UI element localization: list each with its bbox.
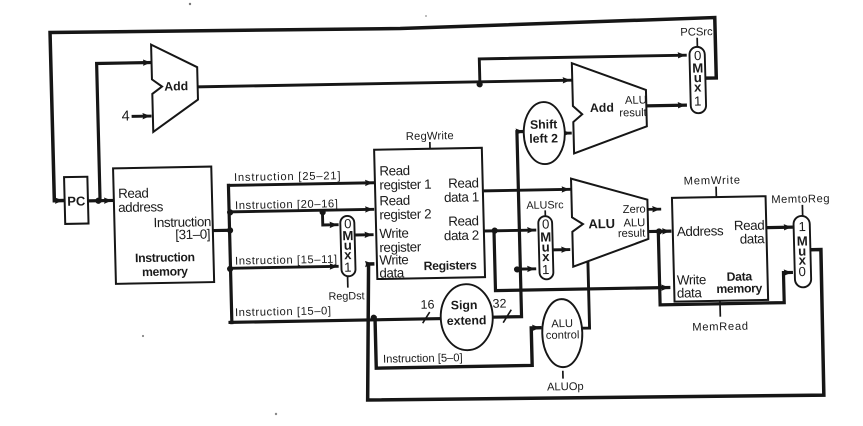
mux PCSrc xyxy=(689,47,706,114)
wire sign extend branch to ALUSrc mux input 1 xyxy=(517,267,535,270)
svg-text:1: 1 xyxy=(542,262,550,277)
svg-text:ALU: ALU xyxy=(625,95,647,107)
svg-text:RegDst: RegDst xyxy=(328,290,364,303)
svg-text:Instruction [25–21]: Instruction [25–21] xyxy=(234,170,342,184)
mux MemtoReg xyxy=(793,216,811,288)
svg-text:left 2: left 2 xyxy=(529,131,558,146)
svg-text:address: address xyxy=(118,199,164,215)
tick ALUSrc to mux xyxy=(544,210,546,216)
svg-text:Instruction: Instruction xyxy=(135,250,195,265)
svg-text:16: 16 xyxy=(420,298,434,312)
svg-text:1: 1 xyxy=(694,94,702,109)
mux ALUSrc xyxy=(538,216,553,279)
svg-text:PCSrc: PCSrc xyxy=(680,26,713,39)
instruction memory xyxy=(113,167,214,284)
svg-text:Read: Read xyxy=(448,213,479,229)
wire ALU Zero output xyxy=(648,208,660,211)
svg-text:Shift: Shift xyxy=(530,117,558,131)
svg-text:Add: Add xyxy=(590,101,614,115)
alu U-ALU main xyxy=(571,177,649,266)
node instr[15-0] branch junction xyxy=(371,315,377,321)
wire ALUSrc mux output to ALU input xyxy=(554,248,569,251)
svg-text:ALUSrc: ALUSrc xyxy=(526,199,564,212)
wire Instruction[20-16] to Read register 2 xyxy=(230,209,373,212)
register PC xyxy=(64,177,88,224)
svg-text:Sign: Sign xyxy=(451,298,478,312)
scan speckles xyxy=(189,3,191,5)
node bus instruction-out junction xyxy=(227,227,233,233)
svg-text:Registers: Registers xyxy=(424,258,478,273)
slash 32-bit bus xyxy=(503,310,512,323)
svg-text:[31–0]: [31–0] xyxy=(175,227,210,243)
svg-text:memory: memory xyxy=(716,281,762,296)
svg-text:Instruction [15–0]: Instruction [15–0] xyxy=(235,305,332,319)
svg-text:MemtoReg: MemtoReg xyxy=(771,193,830,206)
svg-text:result: result xyxy=(618,228,647,241)
svg-text:control: control xyxy=(546,329,580,342)
svg-text:RegWrite: RegWrite xyxy=(406,130,454,143)
node sign extend output junction xyxy=(514,266,520,272)
svg-text:data 1: data 1 xyxy=(444,189,479,205)
wire Read data 2 branch to data memory Write data xyxy=(494,227,669,290)
tick RegWrite to registers xyxy=(429,142,431,150)
wire Add result (PC+4) to branch Add top input xyxy=(198,80,571,87)
svg-text:Zero: Zero xyxy=(623,204,646,216)
wire ALU result to data memory Address xyxy=(648,230,670,234)
svg-text:ALU: ALU xyxy=(588,216,615,231)
svg-text:4: 4 xyxy=(121,109,129,125)
wire RegDst mux output to Write register xyxy=(356,233,373,236)
svg-text:extend: extend xyxy=(447,313,487,328)
tick MemRead to data memory xyxy=(719,300,721,317)
node Read data 2 junction xyxy=(492,227,498,233)
tick MemWrite to data memory xyxy=(715,187,717,198)
wire data memory Read data to MemtoReg mux input 1 xyxy=(768,226,791,230)
adder Add (branch target) xyxy=(572,62,649,154)
wire PC+4 branch to PCSrc mux input 0 xyxy=(479,55,686,84)
wire Read data 2 to ALUSrc mux input 0 xyxy=(485,229,535,233)
node bus instr[15-11] junction xyxy=(227,266,233,272)
wire Instruction[15-0] to sign extend xyxy=(230,319,442,323)
shifter Shift left 2 xyxy=(523,102,566,165)
svg-text:Instruction [5–0]: Instruction [5–0] xyxy=(383,352,463,365)
node PC+4 junction xyxy=(476,81,482,87)
tick ALUOp to ALU control xyxy=(562,371,564,379)
svg-text:x: x xyxy=(694,80,702,95)
slash 16-bit bus xyxy=(422,312,430,323)
svg-text:MemWrite: MemWrite xyxy=(684,175,741,188)
data memory xyxy=(672,196,768,301)
wire Instruction[15-11] to RegDst mux input 1 xyxy=(230,266,337,268)
svg-text:data: data xyxy=(740,231,766,246)
wire constant 4 into Add xyxy=(133,115,150,118)
svg-text:32: 32 xyxy=(492,297,506,311)
wire write-back: MemtoReg mux output to Write data xyxy=(364,250,824,404)
wire Instruction[20-16] branch to RegDst mux input 0 xyxy=(322,212,337,225)
svg-text:Instruction [20–16]: Instruction [20–16] xyxy=(235,198,339,212)
svg-text:memory: memory xyxy=(142,264,188,279)
tick PCSrc to mux xyxy=(696,38,698,47)
wire instruction memory output to instruction bus xyxy=(214,229,230,232)
svg-text:1: 1 xyxy=(344,260,352,275)
mux RegDst xyxy=(340,216,356,277)
wire PC-write loop: PCSrc mux output to PC input xyxy=(50,18,719,201)
wire Read data 1 to ALU input xyxy=(485,189,569,191)
wire ALU result bypass to MemtoReg mux input 0 xyxy=(658,229,792,305)
alu control unit xyxy=(541,299,583,368)
wire Instruction[5-0] to ALU control xyxy=(375,315,541,368)
svg-text:Instruction [15–11]: Instruction [15–11] xyxy=(235,254,338,268)
svg-text:1: 1 xyxy=(798,219,806,234)
wire Instruction[25-21] to Read register 1 xyxy=(230,183,372,186)
node bus instr[20-16] junction xyxy=(227,209,233,215)
adder Add (PC+4) xyxy=(151,44,199,132)
svg-text:PC: PC xyxy=(67,193,86,208)
tick RegDst to mux xyxy=(347,276,349,287)
svg-text:data 2: data 2 xyxy=(444,228,479,244)
sign extend unit xyxy=(440,284,494,351)
svg-text:register 1: register 1 xyxy=(379,177,431,193)
svg-text:Address: Address xyxy=(677,223,724,239)
svg-text:MemRead: MemRead xyxy=(692,321,749,334)
wire branch Add ALU result to PCSrc mux input 1 xyxy=(646,104,685,108)
svg-text:ALU: ALU xyxy=(551,318,573,330)
wire PC to instruction memory read address xyxy=(89,199,112,203)
node ALU result junction xyxy=(656,228,662,234)
svg-text:ALUOp: ALUOp xyxy=(547,381,584,394)
tick MemtoReg to mux xyxy=(801,205,803,216)
wire PC to Add (PC+4) input xyxy=(97,63,154,201)
wire sign extend output to shift left 2 xyxy=(488,132,528,318)
svg-text:result: result xyxy=(619,107,648,120)
node PC output junction xyxy=(95,198,101,204)
wire ALU control output to ALU xyxy=(581,263,590,328)
wire instruction bus vertical xyxy=(228,185,231,322)
registers file xyxy=(374,148,485,279)
wire shift left 2 output to branch Add input xyxy=(565,132,571,135)
svg-text:Add: Add xyxy=(164,79,188,93)
node instr[20-16] branch junction xyxy=(319,209,325,215)
svg-text:register 2: register 2 xyxy=(379,206,431,222)
svg-text:0: 0 xyxy=(798,264,806,279)
svg-text:data: data xyxy=(677,285,703,300)
svg-text:data: data xyxy=(379,265,405,280)
